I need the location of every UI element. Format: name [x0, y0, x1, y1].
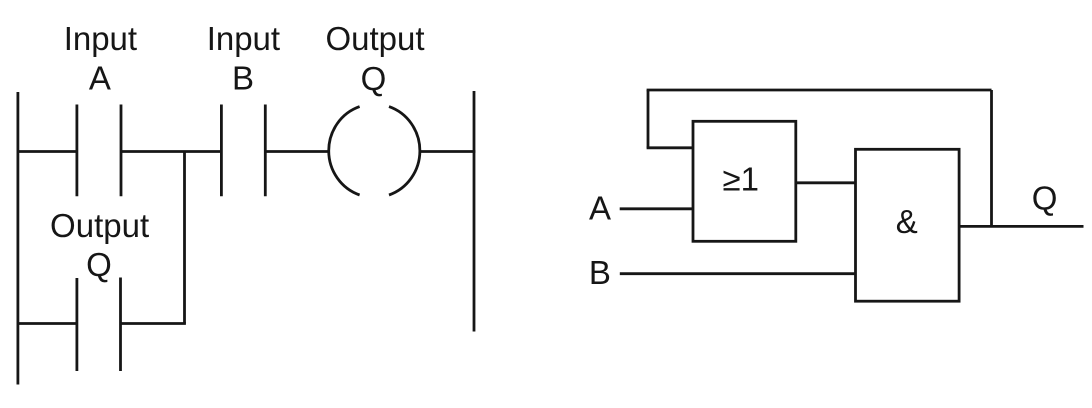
svg-text:Output: Output: [325, 20, 424, 57]
wire rung1 contact B to coil: [265, 150, 328, 153]
svg-text:&: &: [896, 203, 918, 240]
wire OR output to AND input: [796, 181, 856, 184]
wire feedback into OR input: [647, 146, 693, 149]
wire rung2 contact Q to branch: [121, 322, 186, 325]
contact Input A: [77, 105, 121, 197]
svg-text:Q: Q: [361, 60, 387, 97]
svg-text:Output: Output: [50, 207, 149, 244]
svg-text:A: A: [589, 190, 611, 227]
right power rail: [473, 91, 476, 332]
AND gate U2 box: [856, 149, 960, 301]
wire rung1 rail to contact A: [17, 150, 77, 153]
wire rung2 rail to contact Q: [17, 322, 77, 325]
svg-text:B: B: [589, 254, 611, 291]
wire feedback left vertical: [647, 90, 650, 148]
svg-text:Q: Q: [86, 246, 112, 283]
wire branch vertical: [183, 152, 186, 324]
svg-text:Input: Input: [64, 20, 137, 57]
OR gate U1 box: [693, 121, 796, 241]
wire input A: [620, 207, 693, 210]
svg-text:Input: Input: [207, 20, 280, 57]
contact Output Q (latch): [77, 278, 121, 372]
left power rail: [16, 92, 19, 385]
svg-text:≥1: ≥1: [722, 161, 758, 198]
wire rung1 coil to right rail: [420, 150, 475, 153]
wire feedback right vertical: [990, 90, 993, 226]
wire feedback top horizontal: [647, 89, 992, 92]
svg-text:B: B: [232, 60, 254, 97]
contact Input B: [221, 105, 265, 197]
coil Output Q: [329, 107, 420, 195]
svg-text:Q: Q: [1032, 180, 1058, 217]
wire rung1 contact A to contact B: [121, 150, 221, 153]
wire input B: [620, 272, 856, 275]
svg-text:A: A: [89, 60, 111, 97]
wire AND output Q: [959, 225, 1083, 228]
